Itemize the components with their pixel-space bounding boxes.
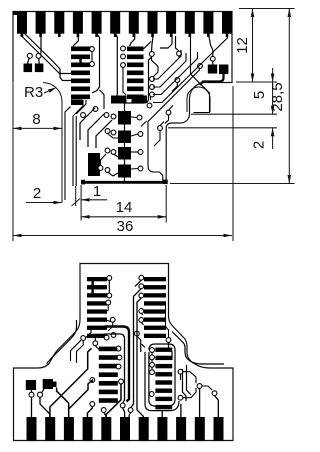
- extension line top right y=8.5: [239, 8, 295, 10]
- via below C3 pad B: [38, 392, 43, 397]
- wire trace (bottom view): [202, 386, 212, 390]
- via: [138, 166, 143, 171]
- wire trace (bottom view): [151, 360, 153, 363]
- wire trace (bottom view): [149, 344, 175, 406]
- wire trace (bottom view): [105, 327, 130, 402]
- via: [147, 103, 152, 108]
- finger 7 stub trace: [133, 34, 136, 38]
- wire trace (bottom view): [47, 320, 77, 364]
- via: [121, 46, 126, 51]
- wire trace: [108, 172, 119, 176]
- IC U2 right pad row 4: [144, 301, 166, 305]
- wire trace: [75, 116, 77, 186]
- wire trace: [76, 100, 86, 114]
- IC U3 right pad row 4: [155, 372, 172, 376]
- wire trace (bottom view): [137, 298, 143, 417]
- wire trace: [154, 130, 160, 146]
- via: [111, 130, 116, 135]
- svg-text:12: 12: [234, 37, 251, 54]
- oblique tick at x=75.7: [72, 199, 81, 207]
- PCB outline (bottom copper view): [14, 264, 234, 441]
- IC U3 left pad row 7: [99, 398, 118, 403]
- wire trace (bottom view): [129, 412, 131, 417]
- svg-text:2: 2: [33, 185, 41, 202]
- via: [116, 364, 121, 369]
- edge connector finger 8 (top view): [148, 12, 158, 34]
- wire trace (bottom view): [104, 412, 106, 417]
- thick bottom copper edge of narrow section: [83, 181, 167, 184]
- wire trace: [101, 154, 107, 166]
- wire trace: [123, 67, 126, 95]
- wire trace (bottom view): [105, 320, 111, 322]
- via: [128, 408, 133, 413]
- capacitor C2 pad B: [219, 65, 228, 75]
- edge connector finger 11 (top view): [203, 12, 213, 34]
- IC U3 left pad row 1: [99, 347, 118, 352]
- IC U2 left pad row 7: [87, 326, 107, 330]
- corner mark top-left: [13, 12, 18, 16]
- wire trace (bottom view): [108, 322, 113, 331]
- IC U1 left pad row 6: [71, 87, 90, 92]
- via: [177, 51, 182, 56]
- wire trace (bottom view): [105, 416, 107, 417]
- wire trace: [209, 34, 213, 57]
- IC U2 right pad row 3: [144, 293, 166, 297]
- capacitor C3 pad A (bottom view): [26, 380, 36, 390]
- wire square links: [124, 124, 126, 181]
- svg-text:R3: R3: [24, 84, 43, 101]
- IC U2 right pad row 1: [144, 277, 166, 281]
- IC U2 right pad row 6: [144, 318, 166, 322]
- via: [139, 284, 144, 289]
- dimension 1 arrow: [81, 198, 90, 202]
- wire trace (bottom view): [154, 349, 155, 351]
- wire trace (bottom view): [86, 329, 92, 338]
- dimension 12 arrow top: [251, 9, 255, 18]
- IC U1 left pad row 2: [71, 55, 90, 60]
- PCB outline (top copper view): [13, 12, 232, 182]
- pad column square 4: [118, 165, 131, 178]
- via: [90, 402, 95, 407]
- via: [166, 110, 171, 115]
- dimension 36 arrow left: [13, 234, 22, 238]
- IC U1 right pad row 3: [127, 63, 144, 68]
- corner mark top-right: [228, 12, 232, 16]
- edge connector finger 2 (bottom view): [45, 417, 55, 441]
- via: [158, 126, 163, 131]
- wire trace (bottom view): [106, 384, 121, 417]
- wire trace (bottom view): [108, 280, 110, 293]
- wire trace: [21, 35, 72, 74]
- wire trace: [148, 68, 199, 181]
- via: [150, 348, 155, 353]
- wire trace (bottom view): [31, 397, 33, 417]
- capacitor C2 pad A: [208, 65, 217, 74]
- IC U1 left pad row 1: [71, 47, 90, 52]
- finger 11 stub trace: [207, 34, 210, 38]
- edge connector finger 8 (bottom view): [157, 417, 167, 441]
- via: [98, 166, 103, 171]
- wire trace (bottom view): [145, 352, 179, 411]
- wire trace (bottom view): [161, 411, 163, 417]
- via: [110, 317, 115, 322]
- via: [166, 338, 171, 343]
- wire trace (bottom view): [77, 340, 84, 363]
- via: [149, 52, 154, 57]
- via: [93, 107, 98, 112]
- via: [150, 370, 155, 375]
- IC U1 right pad row 5: [127, 79, 144, 84]
- IC U2 left pad row 3: [87, 293, 107, 297]
- extension line x=13 left: [12, 83, 14, 241]
- wire trace: [100, 90, 105, 109]
- via: [150, 92, 155, 97]
- IC U3 right pad row 2: [155, 356, 172, 360]
- finger 6 stub trace: [114, 34, 117, 38]
- edge connector finger 4 (top view): [73, 12, 83, 34]
- IC U2 left pad row 5: [87, 309, 107, 313]
- dimension 12 line: [252, 9, 254, 83]
- wire trace: [96, 120, 112, 148]
- via: [212, 391, 217, 396]
- via: [107, 293, 112, 298]
- wire trace (bottom view): [169, 342, 173, 360]
- wire trace: [144, 42, 152, 49]
- capacitor C1 pad A: [24, 64, 33, 73]
- edge connector finger 1 (bottom view): [27, 417, 37, 441]
- wire trace: [25, 34, 72, 81]
- edge connector finger 7 (top view): [129, 12, 139, 34]
- edge connector finger 3 (bottom view): [64, 417, 74, 441]
- dimension 12 arrow bottom: [251, 74, 255, 83]
- IC U2 left pad row 1: [87, 277, 107, 281]
- wire trace: [73, 34, 78, 47]
- dimension 1 line: [81, 199, 107, 201]
- wire trace (bottom view): [71, 340, 82, 361]
- IC U3 right pad row 1: [155, 348, 172, 352]
- pad D2 horizontal top right: [132, 96, 148, 103]
- wire trace (bottom view): [137, 336, 141, 352]
- wire trace: [187, 87, 210, 112]
- extension line x=232 right side: [232, 86, 234, 241]
- wire trace: [131, 151, 138, 153]
- large pad left of column: [88, 153, 100, 176]
- dimension 28,5 line: [288, 9, 290, 184]
- via: [105, 148, 110, 153]
- wire trace (bottom view): [180, 374, 182, 380]
- edge connector finger 5 (bottom view): [101, 417, 111, 441]
- PCB outline left fillet R3 and left column edge: [43, 83, 62, 203]
- wire trace (bottom view): [105, 277, 108, 279]
- edge connector finger 11 (bottom view): [214, 417, 224, 441]
- wire trace (bottom view): [105, 305, 109, 313]
- wire via to C1 pad B: [38, 58, 40, 63]
- wire trace (bottom view): [95, 346, 99, 350]
- via: [137, 115, 142, 120]
- via: [178, 369, 183, 374]
- IC U1 right pad row 4: [127, 71, 144, 76]
- via: [175, 78, 180, 83]
- IC U3 right pad row 3: [155, 364, 172, 368]
- via: [90, 62, 95, 67]
- wire trace (bottom view): [87, 406, 92, 417]
- via: [107, 276, 112, 281]
- finger 5 stub trace: [95, 34, 98, 38]
- IC U2 right pad row 2: [144, 285, 166, 289]
- via: [178, 395, 183, 400]
- wire trace: [160, 34, 172, 48]
- via: [105, 129, 110, 134]
- dimension 36 line: [13, 235, 232, 237]
- wire C3 pad A to via: [31, 390, 33, 392]
- IC U1 right pad row 6: [127, 87, 144, 92]
- via above C1 pad A: [27, 53, 32, 58]
- via: [81, 336, 86, 341]
- dimension 8 line: [13, 127, 62, 129]
- wire trace (bottom view): [151, 352, 153, 355]
- finger 12 stub trace: [226, 34, 229, 38]
- corner block bottom-left of narrow section: [81, 180, 85, 185]
- finger 9 stub trace: [170, 34, 173, 38]
- edge connector finger 12 (top view): [222, 12, 232, 34]
- svg-text:14: 14: [116, 199, 133, 216]
- via: [119, 379, 124, 384]
- dimension 36 arrow right: [224, 234, 233, 238]
- dimension 2 leader bottom left: [26, 202, 62, 204]
- wire trace: [191, 35, 210, 113]
- wire trace: [153, 52, 198, 95]
- IC U1 left pad row 4: [71, 71, 90, 76]
- via below C3 pad A: [29, 392, 34, 397]
- wire trace: [130, 34, 135, 46]
- via: [81, 113, 86, 118]
- wire trace: [141, 121, 147, 127]
- extension line right y=82: [236, 81, 277, 83]
- IC U1 right pad row 2: [127, 55, 144, 60]
- IC U2 right pad row 5: [144, 309, 166, 313]
- wire trace: [131, 116, 137, 119]
- via: [93, 341, 98, 346]
- dimension 28,5 arrow top: [288, 9, 292, 18]
- wire trace: [200, 74, 224, 85]
- IC U1 right pad row 7: [127, 95, 144, 100]
- wire trace: [91, 51, 93, 61]
- edge connector finger 10 (top view): [185, 12, 195, 34]
- via: [90, 378, 95, 383]
- wire trace (bottom view): [116, 348, 118, 350]
- dimension 5 line: [272, 68, 274, 114]
- svg-text:8: 8: [32, 111, 40, 128]
- wire trace: [108, 134, 119, 139]
- wire via to C1 pad A: [28, 58, 30, 64]
- edge connector finger 1 (top view): [17, 12, 27, 34]
- extension line right y=114: [191, 113, 277, 115]
- pad column square 1: [118, 111, 131, 125]
- IC U1 left pad row 7: [71, 95, 90, 100]
- wire trace (bottom view): [131, 289, 142, 408]
- wire trace: [73, 100, 83, 116]
- via: [111, 150, 116, 155]
- edge connector finger 9 (bottom view): [176, 417, 186, 441]
- via: [138, 150, 143, 155]
- wire trace (bottom view): [180, 404, 182, 417]
- wire trace: [178, 56, 180, 58]
- wire trace: [131, 134, 138, 136]
- pad below U1 left column: [71, 100, 83, 106]
- IC U2 right pad row 7: [144, 326, 166, 330]
- svg-text:1: 1: [93, 183, 101, 200]
- via: [90, 47, 95, 52]
- wire trace (bottom view): [151, 367, 153, 370]
- via: [101, 408, 106, 413]
- svg-text:28,5: 28,5: [269, 82, 286, 111]
- wire trace (bottom view): [94, 338, 96, 341]
- wire trace (bottom view): [141, 313, 143, 315]
- wire trace: [172, 82, 177, 91]
- dimension 14 line: [81, 216, 166, 218]
- wire trace (bottom view): [40, 397, 50, 417]
- via: [150, 362, 155, 367]
- via: [104, 335, 109, 340]
- edge connector finger 10 (bottom view): [195, 417, 205, 441]
- wire trace: [72, 116, 74, 186]
- IC U2 left pad row 4: [87, 301, 107, 305]
- finger 1 stub trace: [21, 34, 24, 38]
- wire trace (bottom view): [199, 388, 201, 417]
- edge connector finger 4 (bottom view): [83, 417, 93, 441]
- wire trace (bottom view): [183, 372, 196, 383]
- svg-text:2: 2: [250, 141, 267, 149]
- wire trace (bottom view): [50, 348, 92, 417]
- wire trace (bottom view): [141, 322, 143, 325]
- dimension 14 arrow right: [158, 215, 167, 219]
- R3 leader line: [44, 89, 55, 94]
- wire trace (bottom view): [183, 388, 196, 398]
- via: [197, 384, 202, 389]
- wire trace: [152, 57, 159, 78]
- IC U2 left pad row 2: [87, 285, 107, 289]
- svg-text:36: 36: [117, 218, 134, 235]
- extension line x=81 below board: [80, 185, 82, 221]
- U1 pad link (H bridge rows 2-3): [79, 57, 81, 65]
- IC U2 left pad row 6: [87, 318, 107, 322]
- via: [149, 392, 154, 397]
- wire trace (bottom view): [57, 388, 69, 410]
- wire trace: [80, 108, 95, 140]
- wire via to C2 pad A: [212, 61, 214, 65]
- via: [106, 300, 111, 305]
- IC U3 left pad row 4: [99, 372, 118, 377]
- capacitor C3 pad B (bottom view): [43, 379, 53, 389]
- wire trace (bottom view): [183, 369, 187, 401]
- wire trace: [169, 106, 174, 111]
- wire trace: [40, 34, 42, 54]
- via: [121, 54, 126, 59]
- edge connector finger 6 (top view): [110, 12, 120, 34]
- dimension 2 right arrow: [271, 128, 275, 137]
- via left of C2: [198, 64, 203, 69]
- via: [150, 77, 155, 82]
- via: [117, 355, 122, 360]
- dimension 5 arrow top: [271, 74, 275, 83]
- IC U3 left pad row 3: [99, 364, 118, 369]
- capacitor C1 pad B: [35, 64, 44, 73]
- wire trace (bottom view): [123, 408, 125, 417]
- edge connector finger 2 (top view): [36, 12, 46, 34]
- IC U1 right pad row 1: [127, 47, 144, 52]
- extension line bottom right y=183.5: [170, 183, 295, 185]
- via: [139, 309, 144, 314]
- via: [139, 318, 144, 323]
- corner block bottom-right of narrow section: [164, 180, 168, 184]
- wire trace: [153, 34, 227, 103]
- wire pad D1 to square 1: [124, 104, 126, 112]
- pad D1 horizontal top: [111, 96, 127, 104]
- wire trace: [65, 107, 71, 201]
- wire trace (bottom view): [142, 344, 146, 348]
- IC U3 left pad row 2: [99, 355, 118, 360]
- via: [139, 275, 144, 280]
- wire trace: [150, 97, 152, 100]
- IC U3 left pad row 6: [99, 390, 118, 395]
- via: [105, 168, 110, 173]
- edge connector finger 6 (bottom view): [120, 417, 130, 441]
- finger 3 stub trace: [58, 34, 61, 38]
- via: [138, 132, 143, 137]
- pad column square 3: [118, 147, 131, 160]
- U2 left pad link H: [91, 278, 93, 298]
- extension line x=75.7 below board: [75, 186, 77, 206]
- dimension 28,5 arrow bottom: [288, 175, 292, 184]
- IC U2 left pad row 8: [87, 334, 107, 338]
- via: [120, 403, 125, 408]
- via: [139, 293, 144, 298]
- finger 10 stub trace: [189, 34, 192, 38]
- IC U2 right pad row 8: [144, 334, 166, 338]
- via: [111, 114, 116, 119]
- wire trace (bottom view): [69, 380, 93, 417]
- wire trace (bottom view): [135, 280, 141, 286]
- wire trace: [176, 36, 180, 51]
- IC U1 left pad row 3: [71, 63, 90, 68]
- via above C2: [210, 56, 215, 61]
- IC U3 right pad row 7: [155, 397, 172, 401]
- IC U1 left pad row 5: [71, 79, 90, 84]
- wire trace: [88, 114, 104, 147]
- finger 8 stub trace: [151, 34, 154, 38]
- wire trace: [116, 34, 151, 103]
- wire trace: [131, 168, 138, 171]
- wire trace: [114, 154, 119, 157]
- dimension 14 arrow left: [81, 215, 90, 219]
- via: [104, 113, 109, 118]
- wire trace (bottom view): [172, 332, 224, 365]
- C3 pad B tab: [53, 382, 57, 388]
- wire trace (bottom view): [105, 334, 125, 403]
- wire trace: [153, 50, 181, 79]
- pad column square 2: [118, 131, 131, 144]
- via: [150, 355, 155, 360]
- wire trace (bottom view): [166, 302, 169, 338]
- wire trace (bottom view): [187, 365, 192, 395]
- extension line x=166.2 below board: [165, 185, 167, 223]
- extension line right y=127.8: [168, 127, 277, 129]
- svg-text:5: 5: [251, 91, 268, 99]
- via above C1 pad B: [36, 53, 41, 58]
- via: [111, 333, 116, 338]
- finger 4 stub trace: [77, 34, 80, 38]
- via: [135, 331, 140, 336]
